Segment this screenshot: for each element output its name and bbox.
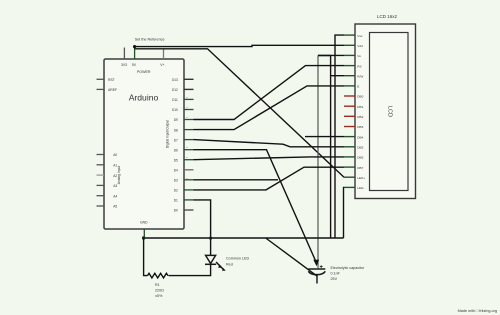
pin D2 xyxy=(174,189,194,193)
wire resistor to LED cathode xyxy=(169,264,211,275)
svg-text:D13: D13 xyxy=(172,78,178,82)
pin D1 xyxy=(174,199,194,203)
svg-text:D3: D3 xyxy=(174,179,178,183)
svg-text:A0: A0 xyxy=(113,153,117,157)
svg-text:AREF: AREF xyxy=(108,88,117,92)
svg-text:D2: D2 xyxy=(174,189,178,193)
svg-text:DB7: DB7 xyxy=(357,166,363,170)
LCD pin LED+ xyxy=(344,176,365,180)
svg-text:~: ~ xyxy=(186,156,188,160)
pin AREF xyxy=(97,88,118,92)
svg-text:D8: D8 xyxy=(174,128,178,132)
LCD pin DB7 xyxy=(344,166,364,170)
svg-text:A4: A4 xyxy=(113,194,117,198)
svg-text:DB0: DB0 xyxy=(357,95,363,99)
wire LCD Vo to capacitor xyxy=(318,54,344,56)
svg-text:D1: D1 xyxy=(174,199,178,203)
svg-text:A5: A5 xyxy=(113,205,117,209)
svg-text:GND: GND xyxy=(140,221,148,225)
svg-text:DB1: DB1 xyxy=(357,105,363,109)
LCD pin E xyxy=(344,85,359,89)
svg-text:RS: RS xyxy=(357,64,361,68)
wire D3 stub xyxy=(194,179,279,181)
pin D12 xyxy=(172,88,194,92)
LCD pin DB6 xyxy=(344,156,364,160)
LCD pin DB0 xyxy=(344,95,364,99)
pin A3 xyxy=(97,184,118,188)
svg-text:D4: D4 xyxy=(174,169,178,173)
LCD pin DB2 xyxy=(344,115,364,119)
wire 5V to LCD Vdd xyxy=(135,45,344,46)
pin A4 xyxy=(97,194,118,198)
svg-text:Analog Input: Analog Input xyxy=(117,166,121,185)
wire D7 to LCD DB5 xyxy=(194,140,345,147)
svg-text:~: ~ xyxy=(186,96,188,100)
wire vertical bus RW to GND rail xyxy=(331,76,344,238)
wire to LCD DB4 xyxy=(305,136,344,138)
svg-text:LED+: LED+ xyxy=(357,176,365,180)
svg-text:DB2: DB2 xyxy=(357,115,363,119)
wire D6 to capacitor plus xyxy=(194,150,317,262)
svg-text:A3: A3 xyxy=(113,184,117,188)
pin A5 xyxy=(97,205,118,209)
svg-text:220Ω: 220Ω xyxy=(155,289,164,293)
wire LCD LEDminus to GND rail xyxy=(343,187,346,238)
pin 3V3 xyxy=(121,48,127,68)
wire D5 to LCD DB6 xyxy=(194,157,345,160)
pin D13 xyxy=(172,78,194,82)
wire GND rail to capacitor minus xyxy=(266,238,317,276)
pin D10 xyxy=(172,106,194,112)
svg-text:Vo: Vo xyxy=(357,54,361,58)
svg-text:~: ~ xyxy=(186,106,188,110)
svg-text:~: ~ xyxy=(186,146,188,150)
pin 5V xyxy=(132,47,137,68)
svg-text:D11: D11 xyxy=(172,98,178,102)
svg-text:0.1nF: 0.1nF xyxy=(331,272,341,276)
pin D4 xyxy=(174,169,194,173)
LCD pin DB1 xyxy=(344,105,364,109)
svg-text:5V: 5V xyxy=(132,63,137,67)
pin D3 xyxy=(174,176,194,182)
svg-text:R1: R1 xyxy=(155,283,160,287)
LCD pin RW xyxy=(344,74,363,78)
LCD pin DB4 xyxy=(344,135,364,139)
pin A0 xyxy=(97,153,118,157)
svg-text:3V3: 3V3 xyxy=(121,63,127,67)
LCD1 16x2 body xyxy=(355,14,416,199)
svg-text:Electrolytic capacitor: Electrolytic capacitor xyxy=(331,266,366,270)
svg-text:D6: D6 xyxy=(174,148,178,152)
pin D0 xyxy=(174,209,194,213)
wire GND rail xyxy=(144,237,344,239)
svg-text:DB6: DB6 xyxy=(357,156,363,160)
LCD pin DB3 xyxy=(344,125,364,129)
svg-text:DB5: DB5 xyxy=(357,146,363,150)
svg-text:E: E xyxy=(357,85,359,89)
capacitor C1 xyxy=(308,265,365,283)
svg-text:D12: D12 xyxy=(172,88,178,92)
LCD pin LED- xyxy=(344,186,364,190)
svg-text:Common LED: Common LED xyxy=(226,257,249,261)
pin D8 xyxy=(174,128,194,132)
svg-text:V+: V+ xyxy=(160,63,164,67)
wire D2 to LCD DB7 xyxy=(194,167,345,190)
svg-text:RST: RST xyxy=(108,78,115,82)
svg-text:Red: Red xyxy=(226,263,233,267)
node 5V junction xyxy=(133,45,136,48)
arduino U1 body xyxy=(104,59,184,229)
LCD pin RS xyxy=(344,64,362,68)
svg-text:D0: D0 xyxy=(174,209,178,213)
svg-text:~: ~ xyxy=(186,116,188,120)
svg-text:~: ~ xyxy=(186,176,188,180)
wire GND to resistor xyxy=(144,238,148,276)
LCD pin Vss xyxy=(344,34,363,38)
svg-text:DB3: DB3 xyxy=(357,125,363,129)
svg-text:D9: D9 xyxy=(174,118,178,122)
svg-text:Set the Reference: Set the Reference xyxy=(135,37,165,41)
svg-text:Digital Input/Output: Digital Input/Output xyxy=(166,120,170,148)
wire D1 to LED anode xyxy=(194,200,211,255)
svg-text:R/W: R/W xyxy=(357,74,363,78)
pin A2 xyxy=(97,174,118,178)
pin RST xyxy=(97,78,115,82)
svg-text:D7: D7 xyxy=(174,138,178,142)
svg-text:DB4: DB4 xyxy=(357,135,363,139)
svg-text:Vss: Vss xyxy=(357,34,363,38)
LED1 xyxy=(205,255,249,270)
LCD pin DB5 xyxy=(344,146,364,150)
svg-text:D5: D5 xyxy=(174,158,178,162)
pin GND xyxy=(143,229,145,238)
pin D5 xyxy=(174,156,194,162)
svg-text:LCD 16x2: LCD 16x2 xyxy=(377,14,398,19)
svg-text:A1: A1 xyxy=(113,164,117,168)
wire 5V to LCD LED+ xyxy=(135,49,344,177)
resistor R1 xyxy=(148,273,168,298)
svg-text:LED-: LED- xyxy=(357,186,364,190)
LCD pin Vdd xyxy=(344,44,363,48)
svg-text:Vdd: Vdd xyxy=(357,44,363,48)
svg-text:D10: D10 xyxy=(172,108,178,112)
svg-text:Made with □ fritzing.org: Made with □ fritzing.org xyxy=(458,309,497,313)
svg-text:LCD: LCD xyxy=(387,106,393,117)
pin D7 xyxy=(174,138,194,142)
svg-text:25V: 25V xyxy=(331,277,338,281)
pin D11 xyxy=(172,96,193,102)
wire LCD Vss to GND rail xyxy=(335,35,344,238)
svg-text:±5%: ±5% xyxy=(155,294,163,298)
node GND junction xyxy=(142,236,145,239)
wire D8 to LCD E xyxy=(194,86,345,130)
LCD pin Vo xyxy=(344,54,361,58)
wire crossing blob xyxy=(209,237,212,240)
pin A1 xyxy=(97,164,118,168)
svg-text:Arduino: Arduino xyxy=(129,92,159,102)
pin D6 xyxy=(174,146,194,152)
pin D9 xyxy=(174,116,194,122)
svg-text:A2: A2 xyxy=(113,174,117,178)
svg-text:POWER: POWER xyxy=(137,70,151,74)
wire D9 to LCD RS xyxy=(194,66,345,120)
wire arrowhead at capacitor xyxy=(313,260,319,266)
wire bus stub Vo row to x331 xyxy=(318,56,331,76)
pin V+ xyxy=(160,50,164,68)
